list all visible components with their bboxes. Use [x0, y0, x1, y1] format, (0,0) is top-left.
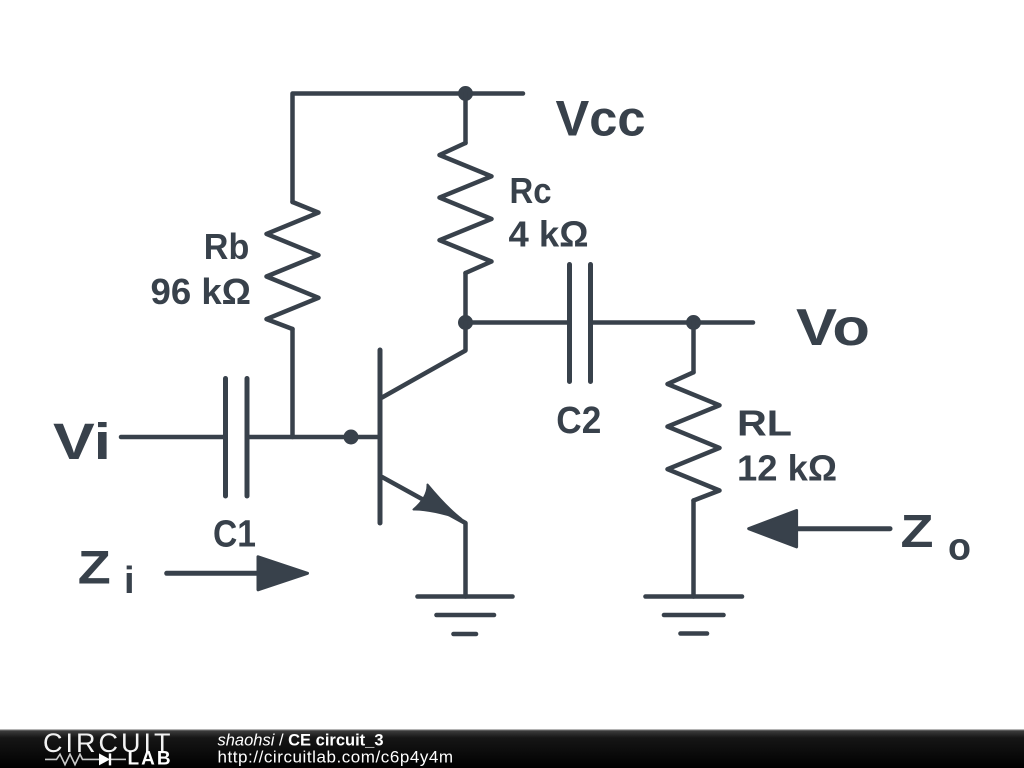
transistor Q1 base bar [378, 350, 383, 523]
svg-text:Z: Z [78, 540, 111, 593]
svg-text:C1: C1 [213, 514, 256, 556]
wire Vo node to RL [691, 323, 696, 373]
wire Vcc to Rc [463, 94, 468, 144]
arrow Zo [795, 526, 890, 531]
arrow Zi [167, 571, 262, 576]
resistor RL [668, 372, 720, 500]
svg-text:96 kΩ: 96 kΩ [151, 271, 252, 312]
node Vo junction [686, 315, 701, 330]
svg-text:Vo: Vo [796, 298, 870, 356]
svg-text:Z: Z [901, 505, 934, 557]
node base junction [344, 430, 359, 445]
node Vcc junction [458, 86, 473, 101]
footer bar [0, 728, 1024, 768]
transistor Q1 collector lead [382, 323, 466, 398]
capacitor C1 [226, 379, 248, 497]
wire C2 to Vo node [591, 320, 694, 325]
resistor Rc [440, 143, 492, 273]
svg-text:RL: RL [737, 403, 792, 444]
wire Vcc top rail [293, 94, 524, 203]
svg-text:Vcc: Vcc [556, 91, 646, 147]
capacitor C2 [570, 265, 591, 382]
wire RL to ground [691, 501, 696, 597]
transistor Q1 emitter arrow [414, 485, 462, 520]
svg-text:i: i [124, 560, 135, 602]
svg-text:shaohsi / CE circuit_3: shaohsi / CE circuit_3 [218, 731, 384, 749]
svg-text:Rc: Rc [510, 170, 552, 211]
resistor Rb [267, 202, 319, 329]
transistor Q1 emitter lead [382, 477, 466, 597]
ground under emitter [418, 597, 513, 635]
wire collector node to C2 [466, 320, 570, 325]
node collector junction [458, 315, 473, 330]
ground under RL [646, 597, 743, 634]
wire Rc to collector node [463, 273, 468, 323]
wire C1 to base [247, 435, 380, 440]
wire Vi input [121, 435, 225, 440]
svg-text:Rb: Rb [204, 226, 250, 267]
svg-text:12 kΩ: 12 kΩ [737, 448, 837, 489]
svg-text:http://circuitlab.com/c6p4y4m: http://circuitlab.com/c6p4y4m [218, 748, 454, 767]
svg-text:o: o [948, 526, 971, 568]
svg-text:C2: C2 [556, 400, 601, 442]
svg-text:4 kΩ: 4 kΩ [509, 213, 589, 254]
wire Rb bottom [290, 329, 295, 437]
svg-text:LAB: LAB [128, 749, 173, 768]
wire Vo stub [694, 320, 754, 325]
svg-text:Vi: Vi [53, 413, 111, 470]
logo squiggle and diode [45, 754, 126, 764]
